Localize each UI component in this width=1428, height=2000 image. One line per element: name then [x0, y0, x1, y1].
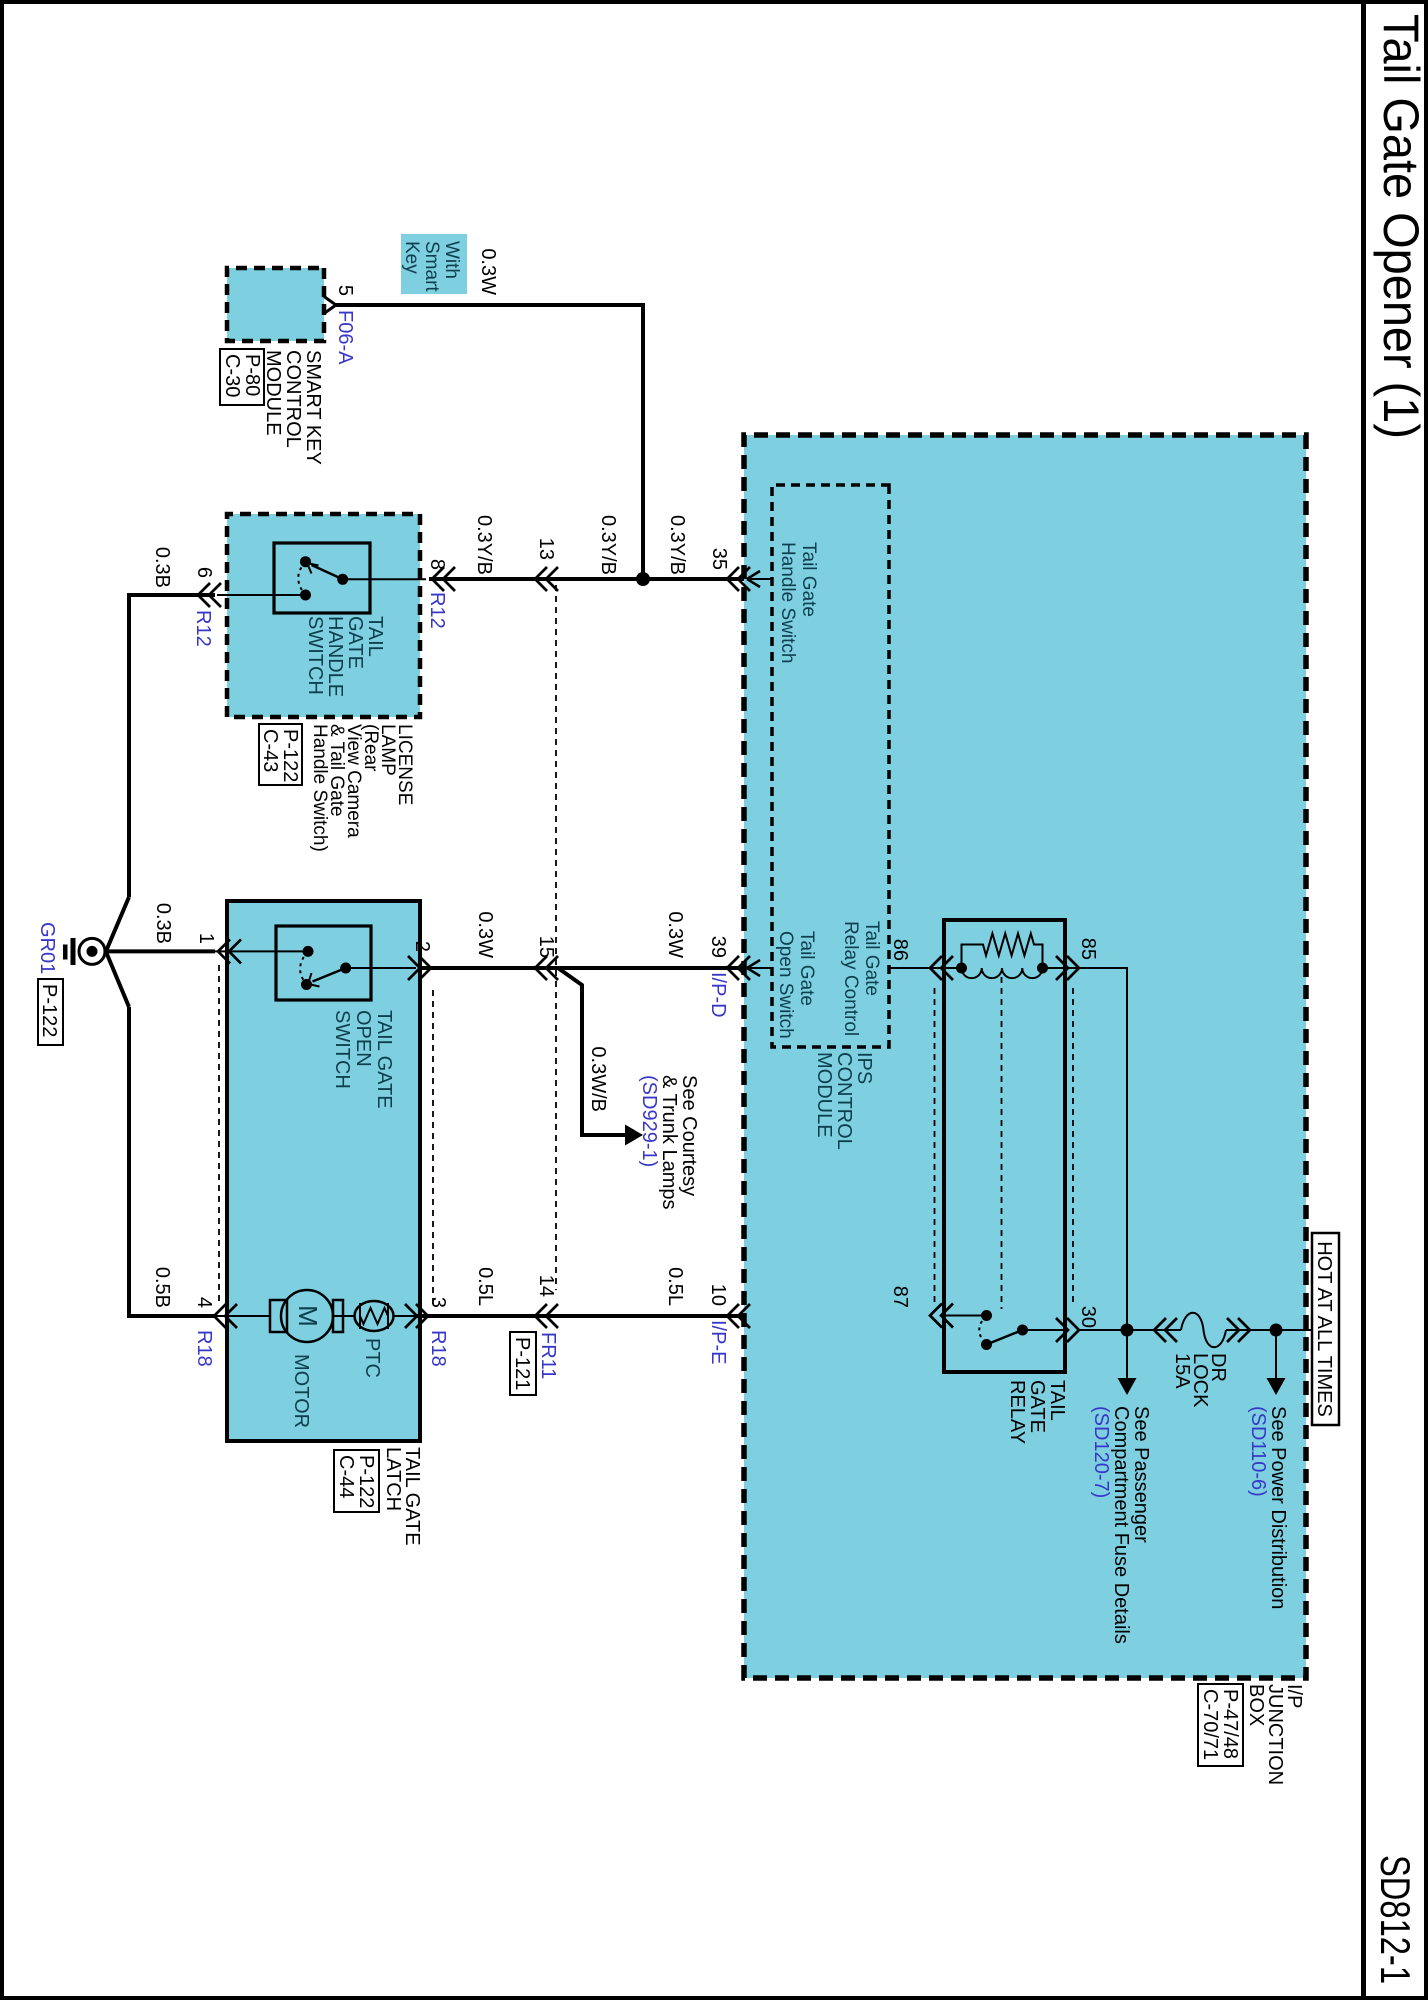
wire: courtesy lamp branch 0.3W/B	[558, 968, 625, 1135]
PTC thermistor	[333, 1301, 394, 1331]
ground label P-122	[38, 979, 63, 1045]
wire: latch power (vertical, 0.5L)	[416, 1314, 744, 1318]
svg-text:(SD110-6): (SD110-6)	[1247, 1406, 1269, 1497]
svg-text:0.5B: 0.5B	[151, 1267, 173, 1308]
IPS label: Tail Gate Handle Switch	[777, 542, 819, 663]
svg-text:13: 13	[535, 538, 557, 560]
wire: pin 1 to ground (0.3B)	[105, 949, 215, 953]
svg-text:GR01: GR01	[36, 922, 58, 974]
svg-text:39: 39	[707, 936, 729, 958]
svg-text:LATCH: LATCH	[382, 1447, 404, 1511]
handle switch contacts and arm	[217, 556, 426, 600]
arrow: see passenger compartment fuse details	[1118, 1330, 1137, 1395]
smart key control module box	[227, 268, 324, 341]
svg-text:Compartment Fuse Details: Compartment Fuse Details	[1110, 1406, 1132, 1644]
svg-text:TAIL: TAIL	[364, 616, 386, 657]
svg-text:Tail Gate: Tail Gate	[861, 921, 882, 996]
svg-text:0.3Y/B: 0.3Y/B	[666, 515, 688, 575]
wire: smart key module to handle switch bus (0.3W)	[336, 305, 643, 579]
pin 39 label and I/P-D	[707, 936, 729, 1018]
wire: motor to pin 4	[213, 1315, 270, 1317]
ground GR01 symbol	[63, 938, 105, 965]
connector label P-121	[510, 1332, 536, 1395]
svg-text:HANDLE: HANDLE	[324, 616, 346, 697]
svg-text:(SD929-1): (SD929-1)	[638, 1075, 660, 1167]
in-line connector 14 chevrons	[535, 1304, 558, 1328]
svg-text:15A: 15A	[1171, 1353, 1193, 1389]
svg-text:I/P: I/P	[1283, 1684, 1305, 1708]
node A: junction dot on handle switch wire	[636, 572, 650, 586]
arrow: see courtesy and trunk lamps	[625, 1125, 643, 1146]
label: see power distribution	[1247, 1406, 1289, 1609]
open switch inner box	[276, 926, 371, 1000]
relay pin 85 lead	[1043, 967, 1080, 969]
svg-text:10: 10	[707, 1284, 729, 1306]
svg-text:15: 15	[535, 936, 557, 958]
dashed connector-pair line 86-87	[934, 988, 936, 1304]
pin 1 connector chevrons	[218, 939, 241, 963]
arrow: see power distribution	[1267, 1330, 1286, 1395]
fuse lower connector chevrons	[1154, 1318, 1177, 1342]
svg-text:6: 6	[193, 567, 215, 578]
svg-text:P-121: P-121	[511, 1337, 533, 1390]
ground trident diagonals	[107, 897, 130, 1007]
svg-text:0.3W/B: 0.3W/B	[587, 1046, 609, 1112]
svg-text:C-43: C-43	[259, 729, 281, 772]
wire: pin 6 to ground branch (0.3B)	[129, 595, 215, 897]
relay coil parallel resistor	[962, 934, 1043, 969]
svg-text:MODULE: MODULE	[813, 1052, 835, 1138]
With Smart Key option tag	[401, 234, 467, 294]
svg-text:SD812-1: SD812-1	[1372, 1855, 1419, 1984]
relay switch arm	[987, 1331, 1021, 1345]
relay name label TAIL GATE RELAY	[1006, 1380, 1068, 1444]
label: see passenger compartment fuse details	[1090, 1406, 1152, 1644]
open switch name label	[331, 1010, 395, 1109]
I/P junction box name label	[1245, 1684, 1305, 1785]
svg-text:See Power Distribution: See Power Distribution	[1267, 1406, 1289, 1609]
dashed connector-pair line 85-30	[1072, 988, 1074, 1304]
HOT AT ALL TIMES tag	[1312, 1233, 1339, 1425]
pin 3 connector chevrons	[405, 1304, 428, 1328]
smart key module name label	[262, 350, 324, 465]
svg-text:I/P-E: I/P-E	[707, 1320, 729, 1364]
svg-text:TAIL GATE: TAIL GATE	[373, 1010, 395, 1109]
pin 10 label and I/P-E	[707, 1284, 729, 1365]
svg-text:GATE: GATE	[344, 616, 366, 669]
latch name label TAIL GATE LATCH	[382, 1447, 423, 1546]
I/P junction box connector label P-47/48 C-70/71	[1198, 1684, 1243, 1766]
wire: handle switch signal (vertical, 0.3Y/B)	[429, 577, 744, 581]
wire: PTC to pin 3	[393, 1315, 418, 1317]
svg-text:P-80: P-80	[241, 354, 263, 396]
svg-text:Handle Switch): Handle Switch)	[309, 724, 330, 852]
svg-text:86: 86	[889, 939, 911, 961]
in-line connector 13 chevrons	[535, 567, 558, 591]
relay pin 87 connector chevrons	[930, 1304, 953, 1328]
svg-text:1: 1	[195, 933, 217, 944]
svg-text:Tail Gate: Tail Gate	[796, 931, 817, 1006]
svg-text:I/P-D: I/P-D	[707, 972, 729, 1018]
svg-text:0.3W: 0.3W	[474, 911, 496, 958]
pin 2 connector chevrons	[408, 956, 431, 980]
svg-text:Key: Key	[401, 241, 422, 274]
pin 4 connector chevrons	[214, 1304, 237, 1328]
svg-text:See Passenger: See Passenger	[1130, 1406, 1152, 1543]
svg-text:87: 87	[889, 1286, 911, 1308]
fuse label DR LOCK 15A	[1171, 1353, 1229, 1408]
fuse upper connector chevrons	[1227, 1318, 1250, 1342]
svg-text:35: 35	[708, 548, 730, 570]
node: hot feed junction dot	[1270, 1324, 1283, 1337]
relay pin 86 connector chevrons	[930, 956, 953, 980]
svg-text:0.3W: 0.3W	[477, 248, 499, 295]
svg-text:C-30: C-30	[221, 354, 243, 397]
handle switch connector label P-122 C-43	[259, 724, 302, 785]
svg-text:P-47/48: P-47/48	[1219, 1689, 1241, 1759]
IPS pin 35 arrow (tail gate handle switch input)	[747, 571, 772, 587]
relay pin 86 lead	[930, 967, 962, 969]
pin 8 connector chevrons	[432, 567, 455, 591]
svg-text:R18: R18	[193, 1330, 215, 1367]
svg-text:Tail Gate Opener (1): Tail Gate Opener (1)	[1373, 14, 1428, 439]
relay pin 85 connector chevrons	[1056, 956, 1079, 980]
svg-text:M: M	[293, 1305, 323, 1327]
svg-text:With: With	[441, 241, 462, 279]
relay switch contact dots	[981, 1310, 992, 1321]
pin 10 connector at junction box edge	[727, 1304, 750, 1328]
motor M1 in latch	[270, 1290, 343, 1342]
pin 35 connector at junction box edge	[727, 567, 750, 591]
fuse F1: DR LOCK 15A	[1181, 1313, 1226, 1348]
svg-text:CONTROL: CONTROL	[833, 1052, 855, 1150]
svg-text:R18: R18	[427, 1330, 449, 1367]
svg-text:& Trunk Lamps: & Trunk Lamps	[658, 1075, 680, 1210]
svg-text:BOX: BOX	[1245, 1684, 1267, 1726]
handle switch outside label LICENSE LAMP	[309, 724, 415, 852]
svg-text:TAIL GATE: TAIL GATE	[401, 1447, 423, 1546]
svg-text:0.3W: 0.3W	[664, 911, 686, 958]
svg-text:FR11: FR11	[537, 1332, 559, 1379]
relay pin 30 connector chevrons	[1056, 1318, 1079, 1342]
svg-text:0.3Y/B: 0.3Y/B	[597, 515, 619, 575]
svg-text:Smart: Smart	[421, 241, 442, 292]
svg-text:Tail Gate: Tail Gate	[798, 542, 819, 617]
svg-text:JUNCTION: JUNCTION	[1264, 1684, 1286, 1785]
relay mechanical link (dashed)	[1001, 977, 1003, 1309]
svg-text:C-44: C-44	[335, 1455, 357, 1498]
svg-text:P-122: P-122	[279, 729, 301, 782]
svg-text:HOT AT ALL TIMES: HOT AT ALL TIMES	[1313, 1241, 1335, 1417]
dashed connector line R18 (pins 1-4)	[218, 965, 220, 1305]
svg-text:SMART KEY: SMART KEY	[302, 350, 324, 465]
svg-text:See Courtesy: See Courtesy	[678, 1075, 700, 1196]
svg-text:MOTOR: MOTOR	[290, 1354, 312, 1428]
IPS label: Tail Gate Relay Control	[840, 921, 882, 1036]
IPS label: Tail Gate Open Switch	[775, 931, 817, 1039]
IPS pin 39 arrow (tail gate open switch input)	[747, 960, 772, 976]
node: fuse lower junction dot	[1121, 1324, 1134, 1337]
svg-text:TAIL: TAIL	[1046, 1380, 1068, 1421]
wire: fuse node down to relay pin 30	[1079, 1329, 1127, 1331]
svg-text:Open Switch: Open Switch	[775, 931, 796, 1039]
wire: fuse segment with in-line connectors	[1127, 1329, 1181, 1331]
svg-text:5: 5	[334, 285, 356, 296]
svg-text:14: 14	[535, 1275, 557, 1297]
open switch contacts and arm	[215, 946, 416, 990]
svg-text:F06-A: F06-A	[334, 310, 356, 365]
IPS control module (dashed box)	[772, 485, 889, 1047]
svg-text:IPS: IPS	[853, 1052, 875, 1084]
svg-text:C-70/71: C-70/71	[1199, 1689, 1221, 1760]
tail gate handle switch box	[227, 514, 420, 717]
svg-text:0.3B: 0.3B	[152, 903, 174, 944]
svg-text:R12: R12	[426, 592, 448, 629]
svg-text:4: 4	[193, 1297, 215, 1308]
svg-text:2: 2	[411, 941, 433, 952]
handle switch name label	[304, 616, 386, 697]
handle switch inner box	[274, 543, 370, 613]
wire: relay 85 up and over to fuse node	[1079, 968, 1127, 1330]
svg-text:Relay Control: Relay Control	[840, 921, 861, 1036]
tail gate latch box (with open switch and motor)	[227, 901, 420, 1441]
smart key module connector label P-80 C-30	[220, 349, 264, 405]
svg-text:8: 8	[426, 559, 448, 570]
wire: pin 4 to ground (0.5B)	[129, 1007, 215, 1316]
wire: fuse to hot node	[1226, 1329, 1312, 1331]
relay coil junction dots	[1037, 963, 1048, 974]
svg-text:0.3B: 0.3B	[151, 547, 173, 588]
in-line connector 15 chevrons	[535, 956, 558, 980]
label: see courtesy and trunk lamps	[638, 1075, 700, 1210]
svg-text:3: 3	[427, 1297, 449, 1308]
svg-text:CONTROL: CONTROL	[282, 350, 304, 448]
svg-text:(SD120-7): (SD120-7)	[1090, 1406, 1112, 1498]
svg-text:85: 85	[1077, 938, 1099, 960]
wire: IPS relay control output to relay pin 86	[889, 967, 962, 969]
smart key module pin 5 notch	[324, 297, 336, 314]
relay switch: pin 30 lead	[1023, 1329, 1066, 1331]
dashed connector line R18 (pins 2-3)	[432, 990, 434, 1305]
svg-text:P-122: P-122	[355, 1455, 377, 1508]
svg-text:GATE: GATE	[1026, 1380, 1048, 1433]
relay switch: pin 87 lead	[944, 1315, 987, 1317]
svg-text:MODULE: MODULE	[262, 350, 284, 436]
wire: open switch signal (vertical, 0.3W)	[418, 966, 744, 970]
pin 6 connector chevrons	[198, 583, 221, 607]
dashed connector line FR11	[555, 585, 557, 1290]
pin 39 connector at junction box edge	[727, 956, 750, 980]
svg-text:PTC: PTC	[361, 1338, 383, 1378]
IPS control module name label	[813, 1052, 875, 1150]
relay U1: tail gate relay box	[944, 920, 1065, 1372]
svg-text:0.5L: 0.5L	[474, 1267, 496, 1306]
svg-text:OPEN: OPEN	[352, 1010, 374, 1067]
svg-text:0.3Y/B: 0.3Y/B	[473, 515, 495, 575]
relay coil (inductor)	[962, 968, 1043, 978]
svg-text:0.5L: 0.5L	[664, 1267, 686, 1306]
svg-text:R12: R12	[192, 610, 214, 647]
relay switch dashed throw arc	[979, 1316, 986, 1345]
svg-text:SWITCH: SWITCH	[331, 1010, 353, 1089]
svg-text:Handle Switch: Handle Switch	[777, 542, 798, 663]
svg-text:SWITCH: SWITCH	[304, 616, 326, 695]
latch connector label P-122 C-44	[334, 1450, 379, 1512]
svg-text:RELAY: RELAY	[1006, 1380, 1028, 1444]
svg-text:30: 30	[1077, 1306, 1099, 1328]
svg-text:P-122: P-122	[38, 984, 60, 1037]
I/P junction box (dashed cyan)	[744, 435, 1306, 1678]
